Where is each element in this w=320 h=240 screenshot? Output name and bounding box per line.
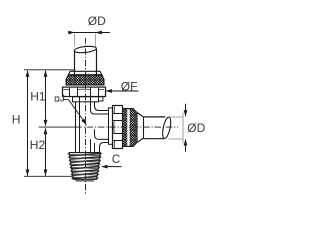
arrowhead OD top right (95, 31, 102, 35)
thread left edge zigzag (68, 153, 73, 179)
extension line tube top left (74, 34, 76, 47)
arrowhead C (101, 165, 108, 169)
body outer left wall (75, 102, 77, 153)
side tube gray extension bottom (169, 138, 183, 140)
thread bottom chamfer (76, 180, 95, 182)
tube top right side (96, 49, 98, 77)
side tube gray extension top (170, 116, 183, 118)
body bore right line into outlet inner top corner (91, 97, 109, 114)
nut top chamfer marks (63, 88, 104, 91)
dimension line OD right bottom (185, 139, 187, 151)
thread crest lines (70, 154, 101, 179)
side collet cap (137, 113, 144, 143)
tube top break ellipse (74, 45, 97, 53)
svg-text:C: C (112, 154, 120, 166)
dimension line OD right top (185, 104, 187, 116)
side nut chamfer marks (113, 107, 116, 148)
svg-text:ØD: ØD (88, 14, 106, 28)
collet cap top (68, 71, 101, 75)
dimension line H2 (45, 128, 47, 175)
lower body bore right line (90, 139, 92, 152)
side knurled ring (123, 109, 138, 147)
arrowhead H1 bottom (44, 120, 48, 127)
arrowhead H bottom (26, 170, 30, 177)
extension line bottom left (24, 175, 72, 177)
leader line J (63, 100, 83, 120)
arrowhead H top (26, 70, 30, 77)
arrowhead H1 top (44, 70, 48, 77)
extension line top left (24, 69, 74, 71)
thread right edge zigzag (96, 153, 101, 179)
stud top step (69, 152, 100, 154)
svg-text:H1: H1 (30, 90, 46, 104)
body bore left line (79, 97, 81, 153)
arrowhead J (81, 119, 87, 126)
arrowhead OD right bottom (184, 139, 188, 146)
tube top left side (74, 51, 76, 78)
centerline horizontal extension solid (39, 126, 79, 128)
centerline horizontal axis (78, 126, 178, 128)
nut top (63, 87, 106, 96)
extension line OD right (182, 113, 184, 144)
centerline vertical axis (85, 38, 87, 194)
nut top facet lines (70, 87, 99, 96)
side tube break ellipse (161, 117, 172, 140)
svg-text:ØF: ØF (121, 79, 138, 93)
svg-text:H2: H2 (30, 138, 46, 152)
extension line tube top right (95, 34, 97, 47)
leader line C (103, 166, 122, 168)
svg-text:J: J (60, 93, 65, 105)
svg-text:ØD: ØD (187, 121, 205, 135)
side tube top line (144, 116, 166, 118)
knurled ring top (66, 75, 104, 85)
outlet bottom corner into lower body (100, 143, 109, 153)
arrowhead OF (105, 89, 112, 93)
dimension line H1 (45, 71, 47, 126)
side nut facet lines (113, 114, 123, 141)
lower body wall right line (94, 143, 96, 153)
body right wall into outlet top corner (95, 102, 109, 111)
arrowhead H2 bottom (44, 170, 48, 177)
thread root lines (70, 154, 101, 178)
outlet inner bottom corner (95, 129, 109, 139)
thread body (69, 153, 100, 180)
svg-text:H: H (12, 113, 21, 127)
neck below top nut (73, 97, 99, 102)
side knurl groove (127, 109, 129, 146)
dimension line OD top (68, 32, 110, 34)
label OF arrow line (106, 90, 139, 92)
dimension J square symbol (55, 97, 59, 101)
side neck (109, 108, 113, 144)
arrowhead H2 top (44, 128, 48, 135)
neck step right (99, 97, 103, 101)
dimension line H (27, 71, 29, 176)
side nut (113, 106, 123, 149)
arrowhead OD top left (68, 31, 75, 35)
arrowhead OD right top (184, 110, 188, 117)
side tube bottom line (144, 138, 165, 140)
